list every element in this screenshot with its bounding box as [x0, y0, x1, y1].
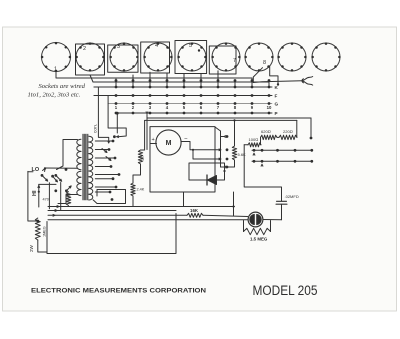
feeder wire F to transformer tap	[94, 96, 126, 137]
wire to open test lead	[253, 81, 302, 83]
double lines from P to right	[147, 117, 311, 119]
svg-text:MODEL 205: MODEL 205	[253, 283, 318, 298]
switch wiring	[28, 171, 33, 173]
row link stubs	[261, 137, 263, 150]
diode CR1	[208, 176, 217, 185]
open test-lead fork	[302, 77, 313, 86]
tube socket	[212, 43, 240, 71]
svg-text:16K: 16K	[190, 208, 199, 213]
bus terminal dots and stubs	[115, 79, 118, 82]
svg-text:2W: 2W	[29, 244, 34, 252]
tap selector arrows	[105, 151, 107, 153]
transformer T1 secondary winding	[89, 136, 93, 142]
tube socket 5	[178, 43, 206, 71]
socket V2 wiring loop	[76, 44, 105, 75]
wire bundle line 1	[48, 206, 235, 208]
selector contacts	[54, 174, 57, 177]
transformer secondary taps	[95, 140, 112, 142]
meter enclosure box	[150, 127, 215, 192]
primary LO tap lead	[45, 167, 78, 169]
tube socket	[312, 43, 340, 71]
svg-text:HI: HI	[32, 190, 38, 196]
primary bottom lead	[58, 195, 78, 204]
svg-text:5: 5	[189, 43, 192, 49]
bus K line	[94, 86, 272, 88]
transformer T1 primary winding	[77, 139, 81, 145]
svg-text:M: M	[166, 140, 172, 147]
P feeder drop	[116, 114, 118, 133]
svg-text:470: 470	[43, 198, 49, 202]
switch row 1	[252, 149, 312, 151]
socket V8 pin wires	[253, 68, 262, 83]
svg-text:1K: 1K	[141, 156, 145, 161]
svg-text:5.6K: 5.6K	[238, 152, 247, 157]
tube socket 7	[245, 43, 273, 71]
svg-text:2: 2	[83, 46, 86, 52]
tube socket 8	[278, 43, 306, 71]
svg-text:1.5 MEG: 1.5 MEG	[250, 237, 268, 242]
wire bundle line 3 with HX resistor	[48, 214, 187, 216]
transformer T1 core	[83, 134, 88, 200]
svg-text:.02MFD: .02MFD	[285, 194, 299, 199]
switch S2 blade	[51, 175, 54, 178]
svg-text:8: 8	[263, 60, 266, 66]
tube socket 2	[76, 43, 104, 71]
svg-text:ELECTRONIC MEASUREMENTS CORPOR: ELECTRONIC MEASUREMENTS CORPORATION	[31, 288, 206, 294]
capacitor .02MFD	[277, 200, 287, 202]
svg-text:1to1, 2to2, 3to3 etc.: 1to1, 2to2, 3to3 etc.	[28, 92, 81, 99]
wires around R5/R6	[141, 121, 145, 150]
resistor 220 ohm	[279, 135, 297, 139]
svg-text:G: G	[275, 102, 279, 107]
svg-text:F: F	[275, 94, 278, 99]
resistor 620 ohm	[261, 135, 278, 139]
svg-text:1MEG: 1MEG	[43, 226, 47, 237]
resistor 100 ohm	[248, 143, 261, 147]
terminal numbers 1-10	[115, 105, 272, 110]
feeder wire K to transformer	[94, 87, 109, 142]
svg-text:P: P	[275, 111, 278, 116]
neon lamp NE1	[248, 212, 263, 227]
chassis box	[47, 214, 176, 254]
svg-text:4: 4	[155, 43, 158, 49]
wire from network to capacitor	[244, 145, 281, 201]
svg-text:10: 10	[267, 105, 272, 110]
tube socket 3	[110, 43, 138, 71]
P feeders up arrows	[146, 115, 148, 150]
primary top lead	[57, 140, 78, 170]
resistor 1.5MEG	[243, 221, 245, 232]
socket V1 routing wire	[56, 72, 252, 81]
bundle entry arrows	[57, 206, 59, 208]
switch S1 blade	[41, 174, 44, 177]
socket V5 extra pin dot	[198, 49, 200, 51]
socket V5 wiring loop	[175, 41, 207, 74]
meter M1	[156, 130, 181, 155]
socket V4 wiring loop	[141, 42, 170, 73]
rotary contact column	[226, 135, 229, 138]
svg-text:220Ω: 220Ω	[283, 129, 293, 134]
resistor R5	[138, 150, 142, 164]
vertical link right of meter box	[233, 192, 235, 216]
diode CR1 loop	[189, 163, 225, 180]
socket-to-bus drop wires	[115, 79, 117, 81]
svg-text:100Ω: 100Ω	[249, 137, 259, 142]
resistor R bleeder 1MEG	[35, 218, 40, 240]
wire bundle line 2	[48, 210, 176, 212]
tube socket 4	[144, 43, 172, 71]
wire bundle line 4	[48, 219, 248, 221]
svg-text:con.: con.	[94, 124, 99, 133]
socket V6 wiring loop	[209, 46, 236, 74]
resistor 5.6K	[232, 146, 236, 160]
svg-text:620Ω: 620Ω	[261, 129, 271, 134]
resistor R6 2.4K	[131, 183, 135, 196]
svg-text:2.4K: 2.4K	[137, 188, 145, 192]
meter box bottom drop	[183, 192, 185, 207]
bus G line	[108, 103, 272, 105]
svg-text:Sockets are wired: Sockets are wired	[39, 83, 86, 90]
socket V2 routing wire	[90, 75, 269, 84]
bus F line	[94, 95, 272, 97]
tube socket 1	[42, 43, 71, 72]
wire	[38, 240, 47, 252]
svg-text:+: +	[152, 137, 155, 143]
switch row 2	[252, 160, 312, 162]
secondary bottom loop	[93, 190, 126, 204]
socket V3 wiring loop	[108, 45, 138, 72]
bus P line	[118, 112, 273, 114]
meter leads	[150, 143, 157, 145]
